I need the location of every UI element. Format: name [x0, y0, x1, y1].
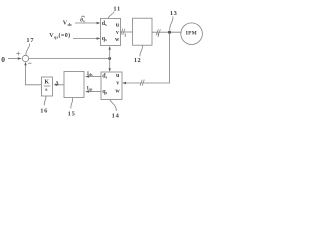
- svg-text:0: 0: [1, 55, 5, 64]
- leader 17: [26, 44, 30, 56]
- wire Ids from 14 to 15: [87, 76, 101, 78]
- svg-text:v: v: [116, 81, 119, 87]
- svg-text:ds: ds: [102, 21, 107, 27]
- label Iqs: [87, 86, 93, 91]
- block 15 axis error estimator: [64, 72, 84, 98]
- minus sign: [28, 62, 32, 64]
- wire branch down into block 14: [109, 59, 111, 69]
- svg-text:w: w: [115, 88, 120, 94]
- leader 11: [108, 12, 114, 19]
- svg-text:ds: ds: [102, 73, 107, 79]
- label 13: [170, 10, 177, 17]
- block 14 three-phase to dq converter: [101, 72, 122, 100]
- branch node: [108, 57, 111, 60]
- svg-text:qs: qs: [102, 36, 107, 42]
- label 15: [68, 111, 76, 118]
- svg-text:17: 17: [26, 37, 34, 44]
- wire 0 to summing junction: [8, 58, 20, 60]
- current sense wire down from node 13: [123, 34, 169, 83]
- label delta (axis error): [55, 81, 59, 86]
- svg-text:3: 3: [157, 34, 159, 38]
- bus size label 3: [124, 33, 126, 37]
- svg-text:12: 12: [134, 57, 141, 64]
- bus slash on current wire: [140, 80, 144, 86]
- svg-text:Iqs: Iqs: [87, 86, 93, 91]
- svg-text:u: u: [116, 73, 120, 79]
- wire Iqs from 14 to 15: [87, 91, 101, 93]
- motor IPM: [181, 23, 203, 45]
- svg-text:w: w: [115, 37, 120, 43]
- svg-text:3: 3: [124, 33, 126, 37]
- label 16: [40, 107, 48, 114]
- leader 14: [110, 100, 116, 111]
- bus wire 11 to 12: [121, 31, 133, 33]
- bus slash 11-12: [121, 29, 125, 35]
- label theta-v over wire: [80, 18, 85, 24]
- label 12: [134, 57, 141, 64]
- plus sign: [16, 52, 20, 56]
- node 0 reference input: [1, 55, 5, 64]
- svg-text:15: 15: [68, 111, 76, 118]
- svg-text:Ids: Ids: [87, 72, 93, 77]
- svg-text:13: 13: [170, 10, 177, 17]
- svg-text:Δ: Δ: [55, 81, 59, 86]
- svg-text:s: s: [45, 87, 48, 93]
- block 16 integrator K/s: [42, 77, 53, 96]
- bus size label 3b: [157, 34, 159, 38]
- svg-text:Vqs(=0): Vqs(=0): [49, 32, 70, 39]
- error wire to branch: [29, 58, 110, 60]
- svg-text:16: 16: [40, 107, 48, 114]
- feedback wire from K/s to summing junction: [26, 64, 42, 85]
- label 17: [26, 37, 34, 44]
- leader 16: [44, 96, 46, 105]
- leader 15: [71, 98, 73, 109]
- svg-text:v: v: [116, 30, 119, 36]
- bus slash 12-13: [156, 29, 160, 35]
- wire a from 15 to 16: [56, 84, 64, 86]
- wire branch up into block 11: [109, 49, 111, 59]
- block 12 inverter: [133, 18, 153, 45]
- svg-text:IPM: IPM: [186, 31, 197, 37]
- label Vdc: [63, 21, 73, 27]
- wire Vdc to ds pin of block 11: [75, 22, 99, 24]
- hat over theta: [81, 16, 85, 17]
- svg-text:14: 14: [112, 113, 120, 120]
- summing junction 17: [22, 55, 28, 61]
- label Ids: [87, 72, 93, 77]
- block 11 dq to three-phase converter: [101, 18, 121, 45]
- svg-text:Vdc: Vdc: [63, 21, 73, 27]
- leader 12: [140, 46, 143, 57]
- leader 13: [170, 17, 173, 31]
- svg-text:u: u: [116, 23, 120, 29]
- label Vqs(=0): [49, 32, 70, 39]
- wire Vqs to qs pin of block 11: [73, 38, 99, 40]
- svg-text:11: 11: [113, 6, 121, 13]
- node 13 junction dot: [168, 31, 171, 34]
- svg-text:K: K: [44, 80, 49, 86]
- bus wire 12 to motor: [152, 31, 181, 33]
- label 11: [113, 6, 121, 13]
- svg-text:qs: qs: [102, 89, 107, 95]
- label 14: [112, 113, 120, 120]
